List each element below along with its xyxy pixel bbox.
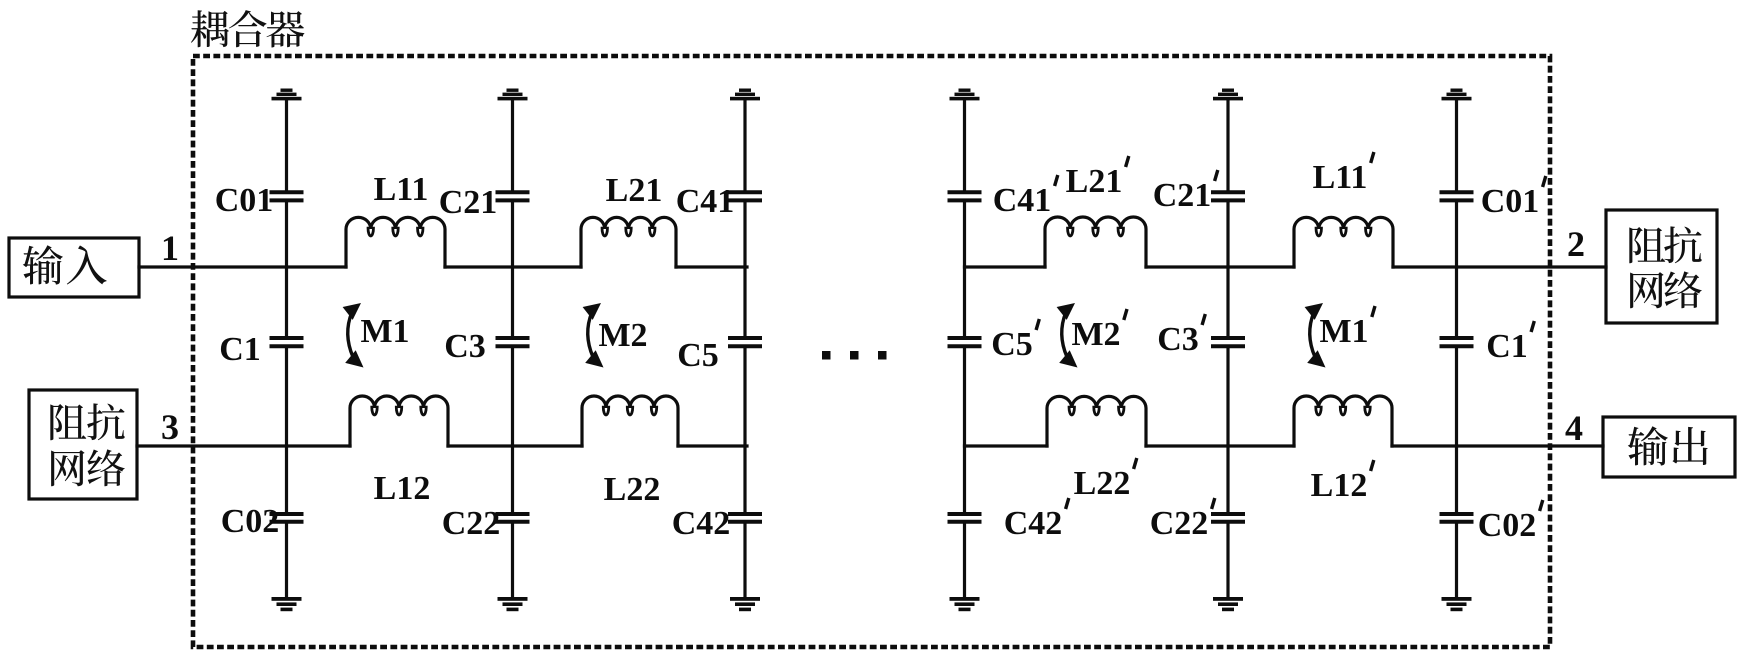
port box: output (shuchu) bbox=[1603, 417, 1735, 477]
svg-text:1: 1 bbox=[161, 228, 179, 268]
svg-text:L12: L12 bbox=[1311, 467, 1368, 504]
label: input box text bbox=[23, 245, 107, 284]
inductor L11p bbox=[1294, 217, 1393, 267]
wire (top, L11p to node2) bbox=[1393, 265, 1606, 268]
capacitor C01 bbox=[272, 192, 302, 200]
ground (top, inverted) bbox=[498, 89, 528, 101]
svg-text:C02: C02 bbox=[1478, 507, 1537, 544]
inductor L21p bbox=[1045, 217, 1146, 267]
svg-text:C22: C22 bbox=[1150, 505, 1209, 542]
label: impedance network left text bbox=[50, 403, 124, 486]
svg-text:C01: C01 bbox=[1481, 183, 1540, 220]
svg-text:2: 2 bbox=[1567, 224, 1585, 264]
svg-text:C5: C5 bbox=[991, 326, 1033, 363]
mutual coupling arrow M2p bbox=[1057, 303, 1078, 368]
wire (bottom, L12p to node4) bbox=[1392, 444, 1603, 447]
svg-text:C22: C22 bbox=[442, 505, 501, 542]
ellipsis dots (repeated sections) bbox=[822, 351, 887, 360]
svg-text:C3: C3 bbox=[444, 328, 486, 365]
inductor L22 bbox=[582, 396, 678, 446]
wire (bottom line, node3 side) bbox=[137, 444, 350, 447]
svg-text:3: 3 bbox=[161, 407, 179, 447]
inductor L22p bbox=[1047, 396, 1146, 446]
capacitor C5p bbox=[950, 338, 980, 346]
ground (top, inverted) bbox=[1442, 89, 1472, 101]
capacitor C21 bbox=[498, 192, 528, 200]
port box: impedance network (left) bbox=[29, 390, 137, 499]
svg-text:C21: C21 bbox=[439, 184, 498, 221]
wire (vertical rail x=286) bbox=[285, 100, 288, 597]
ground (top, inverted) bbox=[1213, 89, 1243, 101]
svg-text:C21: C21 bbox=[1153, 177, 1212, 214]
capacitor C3p bbox=[1213, 338, 1243, 346]
svg-text:L21: L21 bbox=[1066, 163, 1123, 200]
label: coupler (ou he qi) bbox=[191, 10, 304, 47]
capacitor C02 bbox=[272, 514, 302, 522]
svg-text:C3: C3 bbox=[1157, 321, 1199, 358]
capacitor C22 bbox=[498, 514, 528, 522]
inductor L12p bbox=[1294, 396, 1392, 446]
wire (vertical rail x=745) bbox=[743, 100, 746, 597]
capacitor C42 bbox=[730, 514, 760, 522]
svg-text:M2: M2 bbox=[1071, 316, 1120, 353]
svg-text:L11: L11 bbox=[374, 171, 429, 208]
svg-text:4: 4 bbox=[1565, 408, 1583, 448]
inductor L21 bbox=[581, 217, 676, 267]
svg-text:C41: C41 bbox=[676, 183, 735, 220]
wire (bottom, L22p to L12p) bbox=[1146, 444, 1294, 447]
wire (bottom, rail4 to L22p) bbox=[965, 444, 1048, 447]
mutual coupling arrow M1p bbox=[1305, 303, 1326, 368]
capacitor C1p bbox=[1442, 338, 1472, 346]
wire (vertical rail x=964) bbox=[963, 100, 966, 597]
wire (top line, node1 side) bbox=[139, 265, 346, 268]
svg-text:C41: C41 bbox=[993, 182, 1052, 219]
wire (vertical rail x=512) bbox=[511, 100, 514, 597]
wire (vertical rail x=1228) bbox=[1226, 100, 1229, 597]
port box: input (shuru) bbox=[9, 238, 139, 297]
capacitor C41p bbox=[950, 192, 980, 200]
ground (top, inverted) bbox=[272, 89, 302, 101]
wire (top, L21 to rail3) bbox=[676, 265, 747, 268]
svg-text:L22: L22 bbox=[1074, 465, 1131, 502]
svg-text:L21: L21 bbox=[606, 172, 663, 209]
ground bbox=[1442, 597, 1472, 611]
capacitor C01p bbox=[1442, 192, 1472, 200]
svg-text:C42: C42 bbox=[672, 505, 731, 542]
svg-text:C01: C01 bbox=[215, 182, 274, 219]
wire (bottom, L12 to L22) bbox=[448, 444, 582, 447]
ground bbox=[272, 597, 302, 611]
label: output box text bbox=[1628, 426, 1708, 465]
svg-text:M2: M2 bbox=[598, 317, 647, 354]
svg-text:L11: L11 bbox=[1313, 159, 1368, 196]
svg-text:L22: L22 bbox=[604, 471, 661, 508]
capacitor C41 bbox=[730, 192, 760, 200]
svg-text:C42: C42 bbox=[1004, 505, 1063, 542]
svg-text:M1: M1 bbox=[1319, 313, 1368, 350]
mutual coupling arrow M1 bbox=[343, 303, 364, 368]
capacitor C42p bbox=[950, 514, 980, 522]
ground bbox=[1213, 597, 1243, 611]
svg-text:L12: L12 bbox=[374, 470, 431, 507]
port box: impedance network (right) bbox=[1606, 210, 1717, 323]
svg-text:C02: C02 bbox=[221, 503, 280, 540]
svg-text:C1: C1 bbox=[1486, 328, 1528, 365]
inductor L11 bbox=[346, 217, 445, 267]
svg-text:M1: M1 bbox=[360, 313, 409, 350]
ground bbox=[730, 597, 760, 611]
coupler boundary (dashed box) bbox=[193, 56, 1550, 647]
capacitor C5 bbox=[730, 338, 760, 346]
svg-text:C5: C5 bbox=[677, 337, 719, 374]
ground bbox=[498, 597, 528, 611]
wire (bottom, L22 to rail3) bbox=[678, 444, 747, 447]
wire (top, L21p to L11p) bbox=[1146, 265, 1294, 268]
label: impedance network right text bbox=[1629, 226, 1701, 308]
ground (top, inverted) bbox=[730, 89, 760, 101]
ground (top, inverted) bbox=[950, 89, 980, 101]
wire (top, between L11 and L21) bbox=[445, 265, 581, 268]
wire (top, rail4 to L21p) bbox=[965, 265, 1046, 268]
capacitor C22p bbox=[1213, 514, 1243, 522]
capacitor C3 bbox=[498, 338, 528, 346]
wire (vertical rail x=1456) bbox=[1455, 100, 1458, 597]
svg-text:C1: C1 bbox=[219, 331, 261, 368]
capacitor C21p bbox=[1213, 192, 1243, 200]
capacitor C02p bbox=[1442, 514, 1472, 522]
inductor L12 bbox=[350, 396, 448, 446]
capacitor C1 bbox=[272, 338, 302, 346]
mutual coupling arrow M2 bbox=[583, 303, 604, 368]
ground bbox=[950, 597, 980, 611]
